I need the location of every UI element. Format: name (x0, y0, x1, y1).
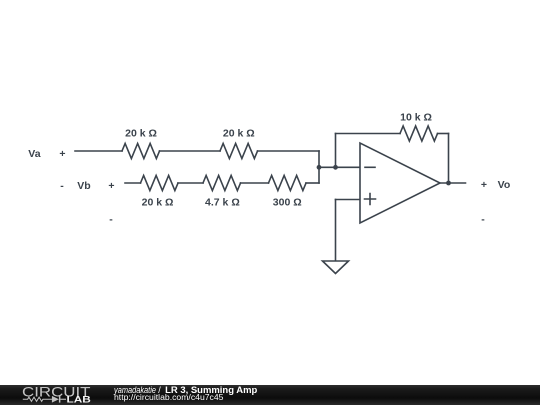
svg-text:+: + (481, 179, 487, 191)
svg-text:300 Ω: 300 Ω (273, 197, 302, 209)
node output dot (446, 181, 451, 186)
wire R2 to corner (258, 150, 320, 152)
svg-text:-: - (60, 180, 64, 192)
wire Vb lead (125, 182, 141, 184)
resistor R2 20k (top right) (220, 144, 258, 159)
wire op-amp non-inverting input (336, 199, 361, 201)
resistor R4 4.7k (203, 176, 241, 191)
svg-text:20 k Ω: 20 k Ω (125, 128, 157, 140)
svg-text:+: + (59, 148, 65, 160)
wire between R1 and R2 (160, 150, 221, 152)
svg-text:10 k Ω: 10 k Ω (400, 111, 432, 123)
wire Va lead (75, 150, 122, 152)
svg-text:20 k Ω: 20 k Ω (142, 197, 174, 209)
wire feedback horizontal to R6 (336, 133, 401, 135)
logo diode (52, 396, 61, 403)
wire between R3 and R4 (178, 182, 203, 184)
op-amp U1 (360, 143, 440, 223)
resistor R5 300 ohm (269, 176, 307, 191)
node junction dot (feedback tap) (333, 165, 338, 170)
svg-text:LAB: LAB (67, 395, 92, 405)
node junction dot (left) (317, 165, 322, 170)
svg-text:Va: Va (28, 148, 40, 160)
svg-text:-: - (481, 213, 485, 225)
svg-text:4.7 k Ω: 4.7 k Ω (205, 197, 240, 209)
svg-text:20 k Ω: 20 k Ω (223, 128, 255, 140)
wire output (440, 182, 466, 184)
wire vertical joining Va and Vb rows (318, 151, 320, 183)
logo resistor zigzag (23, 397, 66, 401)
ground (323, 261, 349, 274)
op-amp plus symbol (365, 194, 376, 205)
resistor R3 20k (bottom row) (141, 176, 179, 191)
op-amp minus symbol (365, 166, 375, 168)
svg-text:+: + (108, 180, 114, 192)
svg-text:Vo: Vo (498, 179, 511, 191)
wire R6 to right corner (438, 133, 449, 135)
svg-text:Vb: Vb (77, 180, 90, 192)
svg-text:http://circuitlab.com/c4u7c45: http://circuitlab.com/c4u7c45 (114, 393, 224, 402)
wire R5 to corner (306, 182, 319, 184)
wire feedback vertical up (335, 134, 337, 168)
wire feedback vertical down to output (448, 134, 450, 184)
resistor R6 10k feedback (400, 126, 438, 141)
wire node to op-amp inverting input (319, 166, 360, 168)
resistor R1 20k (top left) (122, 144, 160, 159)
wire between R4 and R5 (241, 182, 269, 184)
svg-text:-: - (109, 213, 113, 225)
wire down to ground (335, 200, 337, 262)
